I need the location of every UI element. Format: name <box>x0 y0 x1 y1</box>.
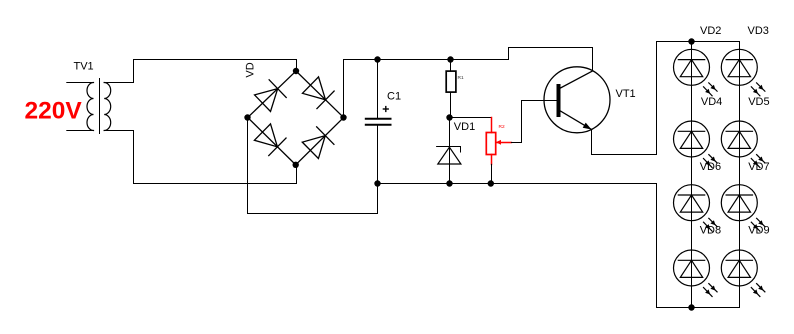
wire R1 top lead <box>450 60 452 72</box>
wire secondary bottom lead <box>104 131 296 184</box>
wire DC+ riser from bridge right node <box>344 48 593 118</box>
wire node to R2 <box>450 117 492 119</box>
svg-text:R1: R1 <box>458 75 464 81</box>
wire LED bottom rail <box>657 307 740 309</box>
svg-text:R2: R2 <box>499 124 505 130</box>
LED VD5 <box>721 121 765 168</box>
svg-text:VD: VD <box>244 62 256 77</box>
wire LED right column <box>739 42 741 308</box>
variable resistor R2 <box>486 118 511 165</box>
transformer TV1 secondary winding <box>104 83 111 131</box>
wire emitter to LED feed <box>592 42 657 155</box>
transistor VT1 emitter arrowhead <box>583 123 592 130</box>
transformer TV1 core <box>99 79 101 134</box>
wire bridge diagonal top-right <box>296 71 344 118</box>
node C1 bottom <box>374 180 380 186</box>
zener diode VD1 triangle <box>438 147 461 164</box>
LED VD6 <box>674 185 718 232</box>
transistor VT1 emitter <box>561 111 592 130</box>
svg-text:220V: 220V <box>25 98 83 125</box>
LED VD7 <box>721 185 765 232</box>
svg-text:VD9: VD9 <box>748 224 769 236</box>
wire R1 bottom lead <box>450 92 452 117</box>
transistor VT1 base bar <box>557 84 561 117</box>
wire LED top rail <box>657 41 740 43</box>
capacitor C1 top lead <box>377 60 379 118</box>
diode bridge VD diode 4 (bottom to right) <box>302 127 334 159</box>
diode bridge VD diode 3 (left to bottom) <box>254 123 286 155</box>
LED VD2 <box>674 49 718 96</box>
svg-text:VD7: VD7 <box>748 161 769 173</box>
wire LED left column <box>691 42 693 308</box>
LED VD8 <box>674 250 718 297</box>
transistor VT1 circle <box>544 67 610 133</box>
diode bridge VD diode 1 (left to top) <box>254 80 286 112</box>
node bridge bottom <box>293 162 299 168</box>
node LED bottom rail <box>688 304 694 310</box>
wire primary bottom lead <box>67 130 94 132</box>
capacitor C1 bottom lead <box>377 126 379 184</box>
node bridge left <box>244 114 250 120</box>
wire bridge left node return <box>248 118 378 214</box>
transformer TV1 primary winding <box>87 83 94 131</box>
label C1 plus sign <box>383 107 388 112</box>
svg-text:VD1: VD1 <box>454 121 475 133</box>
wire secondary top lead <box>104 60 296 83</box>
transistor VT1 collector <box>561 71 593 88</box>
capacitor C1 plates <box>366 118 391 120</box>
wire bridge diagonal left-bottom <box>248 118 296 165</box>
node R2 bottom <box>488 180 494 186</box>
diode bridge VD diode 2 (top to right) <box>302 76 334 108</box>
zener diode VD1 cathode bar <box>437 147 461 153</box>
svg-text:VD3: VD3 <box>748 25 769 37</box>
svg-text:C1: C1 <box>387 91 401 103</box>
svg-text:TV1: TV1 <box>74 61 94 73</box>
wire R2 wiper to base riser <box>511 101 556 143</box>
node bridge right <box>340 114 346 120</box>
svg-text:VD5: VD5 <box>748 96 769 108</box>
wire primary top lead <box>67 82 94 84</box>
node LED top rail <box>688 38 694 44</box>
svg-text:VD4: VD4 <box>701 96 722 108</box>
resistor R1 <box>446 71 456 92</box>
svg-text:VD8: VD8 <box>700 224 721 236</box>
svg-text:VD2: VD2 <box>700 25 721 37</box>
wire R2 bottom lead <box>491 164 493 183</box>
node bridge top <box>293 68 299 74</box>
wire bridge diagonal left-top <box>248 71 296 118</box>
LED VD4 <box>674 121 718 168</box>
node VD1 bottom <box>446 180 452 186</box>
wire DC- drop to LED bottom rail <box>656 184 658 308</box>
zener diode VD1 lead <box>449 118 451 184</box>
node R1 top <box>447 56 453 62</box>
LED VD9 <box>721 250 765 297</box>
wire bottom rail DC- <box>378 183 657 185</box>
svg-text:VD6: VD6 <box>700 161 721 173</box>
LED VD3 <box>721 49 765 96</box>
svg-text:VT1: VT1 <box>616 88 636 100</box>
node C1 top <box>374 56 380 62</box>
node R1/VD1/R2 junction <box>446 114 452 120</box>
wire bridge diagonal bottom-right <box>296 118 344 165</box>
